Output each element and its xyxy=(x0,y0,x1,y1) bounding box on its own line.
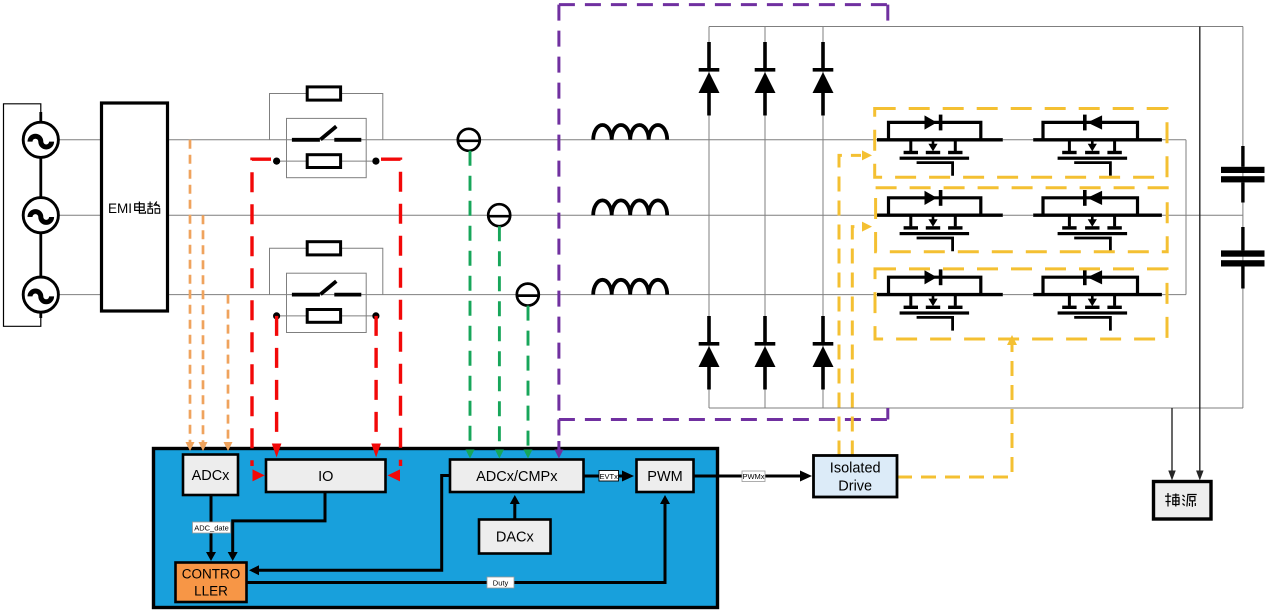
wire phase C between switch cells xyxy=(1003,294,1033,296)
wire phase C from source to EMI xyxy=(58,294,101,296)
wire phase B main run xyxy=(168,214,878,216)
gold drive path to phase B switches xyxy=(852,227,861,456)
svg-text:EVTx: EVTx xyxy=(600,472,619,481)
switch blade K2 xyxy=(321,281,337,294)
red control line relay K1 right to IO xyxy=(381,159,401,466)
gold dashed box phase C switch pair xyxy=(875,269,1167,339)
diode D4 xyxy=(699,316,720,390)
current sensor CT2 xyxy=(488,204,510,226)
AC source V1 xyxy=(23,122,58,157)
block DACx xyxy=(479,520,551,554)
switch contact left K2 xyxy=(292,293,320,297)
label glyph 电 xyxy=(135,202,146,214)
switch contact left K1 xyxy=(292,138,320,142)
relay inner box K1 xyxy=(287,118,367,177)
wire CONTROLLER Duty to PWM xyxy=(247,498,666,583)
relay bypass loop K1 xyxy=(270,94,383,140)
svg-text:EMI: EMI xyxy=(108,201,132,216)
MOSFET switch cell Q1 xyxy=(877,115,1003,176)
wire three-phase source loop xyxy=(4,104,41,326)
green sense line CT1 to ADCx/CMPx xyxy=(469,151,472,452)
inductor L2 xyxy=(593,200,667,215)
capacitor C1 xyxy=(1221,146,1265,203)
node dot left K2 xyxy=(273,312,280,319)
MOSFET switch cell Q3 xyxy=(877,190,1003,251)
svg-text:PWMx: PWMx xyxy=(742,472,764,481)
svg-text:Isolated: Isolated xyxy=(830,461,881,477)
svg-text:PWM: PWM xyxy=(647,469,682,485)
controller board blue panel xyxy=(154,449,718,608)
wire ADCx to CONTROLLER xyxy=(210,495,213,558)
wire IO to CONTROLLER xyxy=(233,492,325,558)
MOSFET switch cell Q2 xyxy=(1033,115,1162,176)
wire phase A from source to EMI xyxy=(58,139,101,141)
AC source V2 xyxy=(23,198,58,233)
resistor bypass K2a xyxy=(307,242,340,255)
purple dashed boundary bottom-right stub xyxy=(886,408,889,420)
wire phase C output to node rail xyxy=(1162,294,1186,296)
svg-text:ADCx: ADCx xyxy=(192,468,231,484)
wire diode leg 3 xyxy=(822,27,824,409)
wire source chain vertical xyxy=(39,112,42,318)
wire diode leg 2 xyxy=(764,27,766,409)
purple dashed boundary left xyxy=(557,5,560,420)
green sense line CT2 to ADCx/CMPx xyxy=(498,226,501,452)
diode D3 xyxy=(813,42,834,116)
gold dashed box phase B switch pair xyxy=(876,188,1168,252)
orange sense line phase C to ADCx xyxy=(227,295,230,443)
current sensor CT3 xyxy=(517,284,539,306)
block Isolated Drive xyxy=(814,456,898,498)
wire DC+ top bus xyxy=(709,26,1243,28)
diode D2 xyxy=(755,42,776,116)
diode D1 xyxy=(699,42,720,116)
auxiliary supply block 辅源 xyxy=(1154,482,1212,520)
label Duty xyxy=(487,577,514,588)
wire ADCx/CMPx to CONTROLLER xyxy=(252,476,450,571)
inductor L3 xyxy=(593,280,667,295)
wire PWM PWMx to Isolated Drive xyxy=(694,475,803,478)
label glyph 源 xyxy=(1183,495,1197,507)
switch contact right K1 xyxy=(334,138,361,142)
svg-text:ADCx/CMPx: ADCx/CMPx xyxy=(476,469,558,485)
gold drive path to phase C switches xyxy=(897,345,1012,477)
wire ADCx/CMPx EVTx to PWM xyxy=(584,475,625,478)
switch blade K1 xyxy=(321,126,337,139)
precharge wire K1 xyxy=(277,160,376,162)
gold drive path to phase A switches xyxy=(839,155,861,455)
gold dashed box phase A switch pair xyxy=(875,109,1167,178)
MOSFET switch cell Q6 xyxy=(1033,269,1162,330)
node rail joining phase A and C outputs xyxy=(1185,140,1187,295)
wire phase B between switch cells xyxy=(1003,214,1033,216)
relay inner box K2 xyxy=(287,273,367,332)
relay bypass loop K2 xyxy=(270,248,383,294)
red control line relay K2 left to IO xyxy=(275,316,278,444)
purple dashed boundary top xyxy=(559,3,888,6)
orange sense line phase B to ADCx xyxy=(202,215,205,443)
block IO xyxy=(266,460,386,493)
svg-text:LLER: LLER xyxy=(194,584,228,599)
block PWM xyxy=(637,460,694,493)
svg-text:ADC_date: ADC_date xyxy=(194,524,229,533)
node dot left K1 xyxy=(273,158,280,165)
resistor precharge K2b xyxy=(307,310,340,323)
green sense line CT3 to ADCx/CMPx xyxy=(527,306,530,452)
resistor precharge K1b xyxy=(307,155,340,168)
purple dashed sense line to ADCx/CMPx xyxy=(557,420,560,441)
svg-text:CONTRO: CONTRO xyxy=(182,567,241,582)
MOSFET switch cell Q5 xyxy=(877,269,1003,330)
wire phase B output to capacitor midpoint xyxy=(1162,214,1243,216)
wire DACx to ADCx/CMPx xyxy=(513,498,516,520)
wire diode leg 1 xyxy=(708,27,710,409)
red control line relay K1 left to IO xyxy=(252,159,271,466)
MOSFET switch cell Q4 xyxy=(1033,190,1162,251)
wire aux supply feed from top bus xyxy=(1199,27,1201,479)
svg-text:Drive: Drive xyxy=(838,479,872,495)
purple dashed boundary top-right stub xyxy=(886,5,889,27)
diode D6 xyxy=(813,316,834,390)
red control line relay K2 right to IO xyxy=(374,316,377,444)
wire phase B from source to EMI xyxy=(58,214,101,216)
node dot right K1 xyxy=(372,158,379,165)
wire DC- bottom bus xyxy=(709,407,1243,409)
purple dashed boundary bottom xyxy=(559,418,888,421)
resistor bypass K1a xyxy=(307,87,340,100)
wire phase A output to node rail xyxy=(1162,139,1186,141)
label EVTx xyxy=(599,471,619,482)
EMI filter block EMI电路 xyxy=(102,103,168,311)
precharge wire K2 xyxy=(277,315,376,317)
label glyph 辅 xyxy=(1165,493,1179,507)
orange sense line phase A to ADCx xyxy=(189,140,192,443)
wire right edge capacitor leg xyxy=(1242,27,1244,409)
block ADCx/CMPx xyxy=(450,460,584,493)
capacitor C2 xyxy=(1221,227,1265,289)
wire aux supply feed from bottom bus xyxy=(1171,408,1173,478)
wire phase A between switch cells xyxy=(1003,139,1033,141)
label glyph 路 xyxy=(148,202,160,214)
block ADCx xyxy=(183,455,238,496)
switch contact right K2 xyxy=(334,293,361,297)
svg-text:IO: IO xyxy=(318,469,333,485)
current sensor CT1 xyxy=(458,129,480,151)
label ADC_date xyxy=(193,522,231,533)
label PWMx xyxy=(742,471,765,482)
diode D5 xyxy=(755,316,776,390)
block CONTROLLER xyxy=(176,563,247,603)
svg-text:Duty: Duty xyxy=(493,579,509,588)
inductor L1 xyxy=(593,125,667,140)
AC source V3 xyxy=(23,277,58,312)
wire phase A main run xyxy=(168,139,878,141)
wire phase C main run xyxy=(168,294,878,296)
node dot right K2 xyxy=(372,312,379,319)
svg-text:DACx: DACx xyxy=(496,530,535,546)
